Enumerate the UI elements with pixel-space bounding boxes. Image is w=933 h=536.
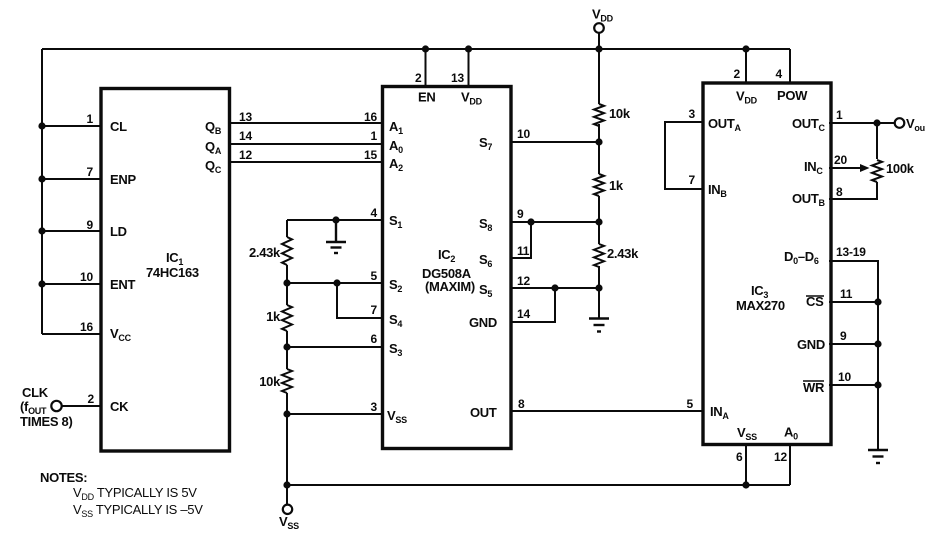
svg-text:2: 2: [88, 392, 95, 406]
junction dot OUTC: [873, 119, 880, 126]
svg-text:13: 13: [239, 110, 252, 124]
wire: left vertical bus: [41, 49, 43, 334]
wire: QC to A2: [229, 161, 383, 163]
wire: CL pin 1: [42, 125, 102, 127]
wire: 1k to 10k: [286, 331, 288, 369]
svg-text:VSS: VSS: [387, 408, 407, 425]
svg-text:10: 10: [80, 270, 93, 284]
wire: VCC pin 16: [42, 333, 102, 335]
junction dot chain bottom: [283, 481, 290, 488]
wire: 10k down to VSS rail: [286, 393, 288, 505]
terminal VDD top: [594, 23, 604, 33]
svg-text:A2: A2: [389, 156, 403, 173]
svg-text:9: 9: [87, 218, 94, 232]
svg-text:1: 1: [371, 129, 378, 143]
svg-text:5: 5: [687, 397, 694, 411]
svg-text:1: 1: [836, 108, 843, 122]
svg-text:WR: WR: [803, 380, 825, 395]
svg-text:15: 15: [364, 148, 377, 162]
wire: 1k to 2.43k node S8: [598, 196, 600, 244]
svg-text:14: 14: [239, 129, 252, 143]
svg-text:7: 7: [371, 303, 378, 317]
svg-text:POW: POW: [777, 88, 808, 103]
wire: QA to A0: [229, 143, 383, 145]
junction dot LD: [38, 227, 45, 234]
svg-text:MAX270: MAX270: [736, 298, 785, 313]
wire: 10k to 1k node S7: [598, 124, 600, 174]
svg-text:S3: S3: [389, 341, 402, 358]
svg-text:12: 12: [517, 274, 530, 288]
wire: POW pin 4 stub: [789, 49, 791, 83]
wire: S3 pin 6: [287, 346, 383, 348]
svg-text:2: 2: [734, 67, 741, 81]
wire: OUTC pin 1 to VOUT: [829, 122, 894, 124]
junction dot VDD supply: [595, 45, 602, 52]
svg-text:4: 4: [776, 67, 783, 81]
arrowhead: INC wiper: [860, 164, 870, 172]
wire: S6 pin 11 branch: [510, 222, 531, 258]
wire: OUT pin 8 to INA pin 5: [510, 410, 703, 412]
wire: IC3 VSS pin 6 stub: [745, 444, 747, 485]
svg-text:VSS TYPICALLY IS –5V: VSS TYPICALLY IS –5V: [73, 502, 203, 519]
svg-text:8: 8: [518, 397, 525, 411]
svg-text:4: 4: [371, 206, 378, 220]
wire: IC3 VDD pin 2 stub: [745, 49, 747, 83]
svg-text:10k: 10k: [609, 106, 631, 121]
junction dot VDD13 stub: [465, 45, 472, 52]
wire: S2 pin 5: [287, 282, 383, 284]
wire: INC pin 20 wiper: [829, 167, 861, 169]
svg-text:QB: QB: [205, 119, 222, 136]
svg-text:S1: S1: [389, 213, 402, 230]
svg-text:OUTB: OUTB: [792, 191, 826, 208]
terminal VSS bottom: [283, 505, 292, 514]
svg-text:10: 10: [838, 370, 851, 384]
junction dot IC3 VDD stub: [742, 45, 749, 52]
svg-text:6: 6: [736, 450, 743, 464]
junction dot EN stub: [422, 45, 429, 52]
wire: 2.43k to 1k: [286, 265, 288, 305]
svg-text:ENP: ENP: [110, 172, 136, 187]
svg-text:TIMES 8): TIMES 8): [20, 414, 73, 429]
notes block: [40, 470, 203, 519]
ground (IC3 digital bus): [868, 450, 888, 463]
svg-text:2.43k: 2.43k: [249, 245, 281, 260]
wire: OUTA to INB loop: [665, 122, 703, 189]
IC3 pin name WR bar: [803, 380, 825, 395]
IC IC3 MAX270 box: [703, 83, 831, 445]
wire: GND pin 14 branch: [510, 288, 555, 322]
svg-text:OUTA: OUTA: [708, 116, 742, 133]
wire: OUTB pin 8: [829, 182, 877, 199]
svg-text:VDD: VDD: [736, 89, 758, 106]
svg-text:Vou: Vou: [906, 116, 925, 133]
junction dot S2/S4: [333, 279, 340, 286]
wire: EN pin 2 stub: [425, 49, 427, 87]
svg-text:OUTC: OUTC: [792, 116, 826, 133]
svg-text:1k: 1k: [609, 178, 624, 193]
svg-text:16: 16: [80, 320, 93, 334]
ground (S1 node): [326, 220, 346, 253]
svg-text:CL: CL: [110, 119, 127, 134]
wire: ENP pin 7: [42, 178, 102, 180]
svg-text:1: 1: [87, 112, 94, 126]
IC IC1 74HC163 box: [101, 89, 230, 452]
svg-text:INA: INA: [710, 404, 729, 421]
svg-text:A0: A0: [389, 138, 403, 155]
junction dot CL: [38, 122, 45, 129]
svg-text:CLK: CLK: [22, 385, 49, 400]
svg-text:VDD: VDD: [592, 7, 614, 24]
junction dot S5/GND: [551, 284, 558, 291]
IC IC2 DG508A (MAXIM) box: [383, 87, 512, 449]
IC3 name label: [736, 283, 785, 313]
svg-text:11: 11: [840, 287, 853, 301]
svg-text:8: 8: [836, 185, 843, 199]
resistor 1k (right chain): [594, 174, 604, 196]
resistor 2.43k (left chain): [282, 237, 292, 265]
junction dot CS: [874, 298, 881, 305]
svg-text:10: 10: [517, 127, 530, 141]
svg-text:(MAXIM): (MAXIM): [425, 279, 475, 294]
IC3 pin name CS bar: [806, 294, 824, 309]
svg-text:12: 12: [239, 148, 252, 162]
svg-text:S6: S6: [479, 252, 492, 269]
svg-text:3: 3: [371, 400, 378, 414]
svg-text:7: 7: [87, 165, 94, 179]
svg-text:VSS: VSS: [737, 425, 757, 442]
wire: LD pin 9: [42, 230, 102, 232]
svg-text:9: 9: [517, 207, 524, 221]
wire: S7 pin 10: [510, 141, 599, 143]
wire: IC2 VDD pin 13 stub: [468, 49, 470, 87]
svg-text:INB: INB: [708, 182, 727, 199]
wire: S8 pin 9: [510, 221, 599, 223]
svg-text:IC2: IC2: [438, 247, 455, 264]
junction dot S8 node: [595, 218, 602, 225]
svg-text:2: 2: [415, 71, 422, 85]
resistor 2.43k (right chain): [594, 244, 604, 267]
resistor 10k (right chain): [594, 104, 604, 126]
svg-text:GND: GND: [797, 337, 825, 352]
wire: 100k top lead: [876, 123, 878, 159]
svg-text:7: 7: [689, 173, 696, 187]
junction dot ENT: [38, 280, 45, 287]
junction dot S5 node: [595, 284, 602, 291]
junction dot S8/S6: [527, 218, 534, 225]
wire: left chain lead S1 to 2.43k: [286, 220, 288, 237]
svg-text:S8: S8: [479, 216, 492, 233]
svg-text:INC: INC: [804, 159, 823, 176]
svg-text:100k: 100k: [886, 161, 915, 176]
wire: VDD terminal lead: [598, 33, 600, 49]
svg-text:QA: QA: [205, 139, 222, 156]
svg-text:ENT: ENT: [110, 277, 135, 292]
junction dot GND9: [874, 340, 881, 347]
svg-text:QC: QC: [205, 158, 222, 175]
junction dot chain S3: [283, 343, 290, 350]
terminal VOUT: [895, 118, 905, 128]
svg-text:13: 13: [451, 71, 464, 85]
terminal CLK: [51, 401, 61, 411]
svg-text:A1: A1: [389, 119, 403, 136]
wire: A0 pin 12 stub: [789, 444, 791, 485]
wire: S4 pin 7 branch: [337, 283, 383, 318]
svg-text:NOTES:: NOTES:: [40, 470, 87, 485]
svg-text:20: 20: [834, 153, 847, 167]
wire: S1 pin 4: [287, 219, 383, 221]
svg-text:OUT: OUT: [470, 405, 497, 420]
svg-text:A0: A0: [784, 425, 798, 442]
svg-text:D0–D6: D0–D6: [784, 249, 819, 266]
svg-text:74HC163: 74HC163: [146, 265, 199, 280]
wire: bottom VSS bus: [287, 484, 790, 486]
svg-text:S2: S2: [389, 277, 402, 294]
junction dot chain VSS: [283, 410, 290, 417]
svg-text:11: 11: [517, 244, 530, 258]
svg-text:3: 3: [689, 107, 696, 121]
junction dot chain S2: [283, 279, 290, 286]
svg-text:EN: EN: [418, 90, 435, 105]
potentiometer 100k: [872, 160, 882, 182]
svg-text:CK: CK: [110, 399, 129, 414]
wire: right chain lead from VDD bus: [598, 49, 600, 104]
svg-text:1k: 1k: [266, 309, 281, 324]
wire: 2.43k down to ground: [598, 266, 600, 318]
junction dot S1 ground: [332, 216, 339, 223]
svg-text:2.43k: 2.43k: [607, 246, 639, 261]
svg-text:9: 9: [840, 329, 847, 343]
wire: CS pin 11: [829, 301, 878, 303]
svg-text:VDD TYPICALLY IS 5V: VDD TYPICALLY IS 5V: [73, 485, 197, 502]
svg-text:VSS: VSS: [279, 514, 299, 531]
junction dot ENP: [38, 175, 45, 182]
wire: GND pin 9: [829, 343, 878, 345]
wire: D0-D6 pins 13-19: [829, 261, 878, 449]
svg-text:VCC: VCC: [110, 326, 132, 343]
svg-text:S5: S5: [479, 282, 492, 299]
svg-text:S4: S4: [389, 312, 402, 329]
svg-text:16: 16: [364, 110, 377, 124]
junction dot WR: [874, 381, 881, 388]
wire: WR pin 10: [829, 384, 878, 386]
wire: S5 pin 12: [510, 287, 599, 289]
junction dot S7 node: [595, 138, 602, 145]
resistor 10k (left chain): [282, 369, 292, 393]
svg-text:14: 14: [517, 307, 530, 321]
IC2 name label: [422, 247, 475, 294]
svg-text:10k: 10k: [259, 374, 281, 389]
svg-text:12: 12: [774, 450, 787, 464]
svg-text:6: 6: [371, 332, 378, 346]
wire: top VDD bus: [42, 48, 790, 50]
svg-text:13-19: 13-19: [836, 245, 866, 259]
resistor 1k (left chain): [282, 305, 292, 331]
wire: CK pin 2 from CLK terminal: [62, 405, 102, 407]
svg-text:S7: S7: [479, 135, 492, 152]
ground (right chain): [589, 319, 609, 332]
node label CLK: [20, 385, 73, 429]
svg-text:VDD: VDD: [461, 90, 483, 107]
svg-text:5: 5: [371, 269, 378, 283]
IC1 name label: [146, 250, 199, 280]
wire: IC2 VSS pin 3: [287, 413, 383, 415]
svg-text:GND: GND: [469, 315, 497, 330]
junction dot VSS6: [742, 481, 749, 488]
wire: QB to A1: [229, 122, 383, 124]
svg-text:LD: LD: [110, 224, 127, 239]
wire: ENT pin 10: [42, 283, 102, 285]
